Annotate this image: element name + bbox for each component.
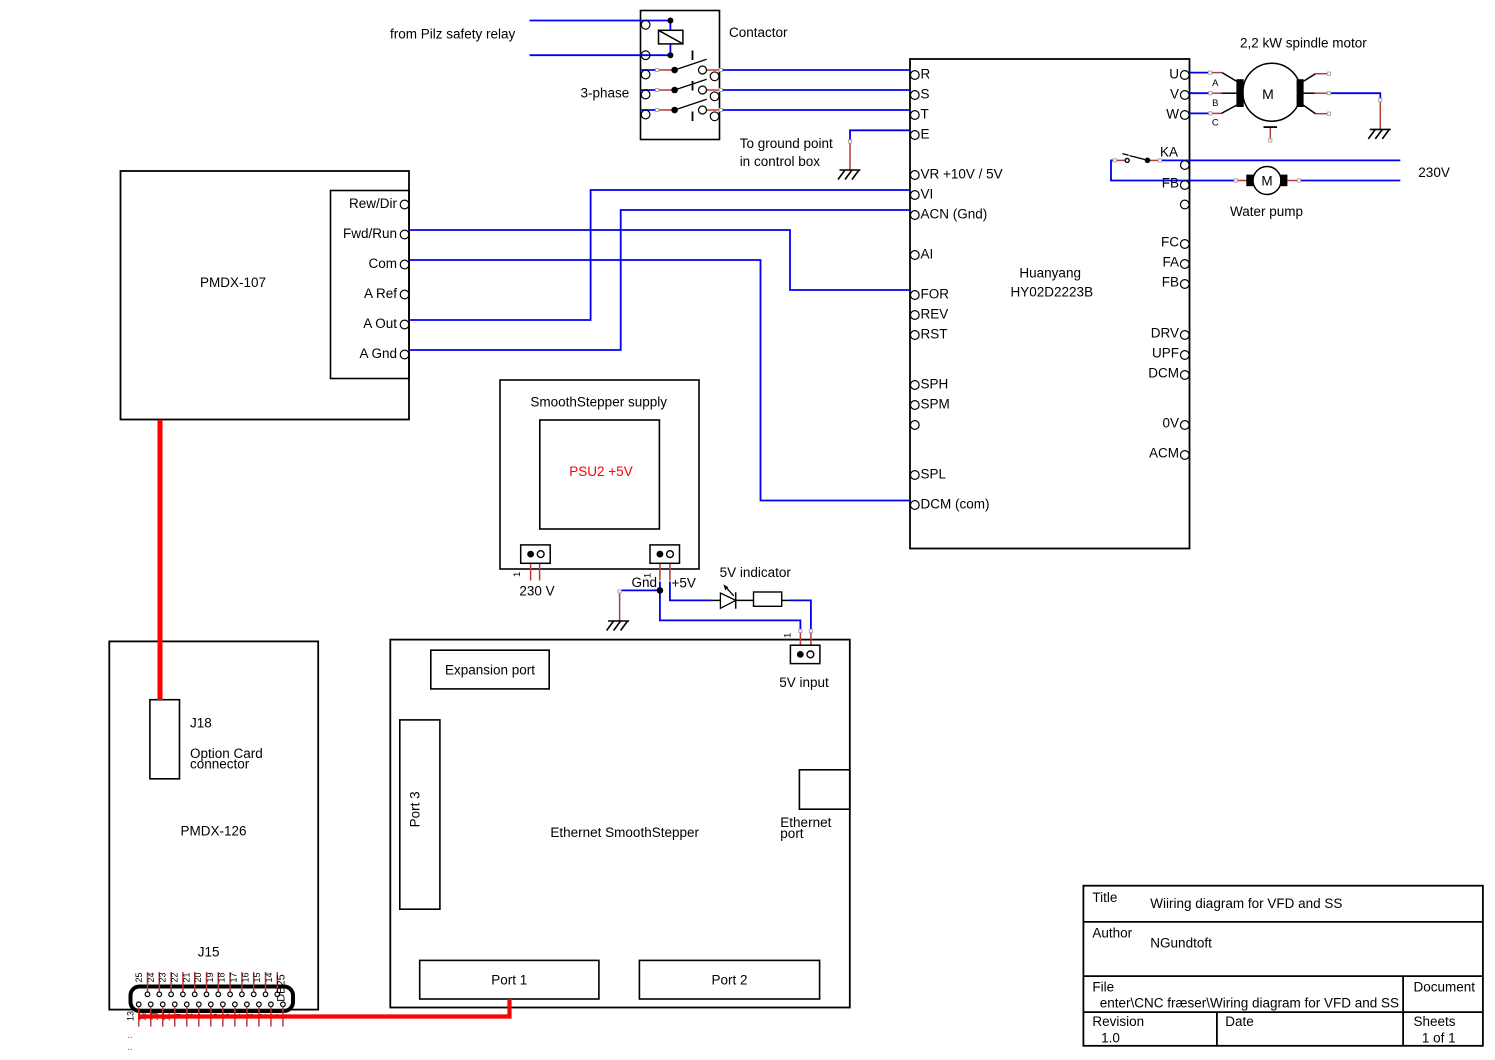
svg-text:Com: Com xyxy=(368,256,397,271)
svg-text:Title: Title xyxy=(1092,890,1117,905)
svg-text:20: 20 xyxy=(193,972,203,982)
svg-text:15: 15 xyxy=(252,972,262,982)
svg-text:230 V: 230 V xyxy=(519,584,554,599)
svg-text:Rew/Dir: Rew/Dir xyxy=(349,196,398,211)
svg-text:23: 23 xyxy=(158,972,168,982)
svg-text:16: 16 xyxy=(240,972,250,982)
svg-text:VR +10V / 5V: VR +10V / 5V xyxy=(921,166,1003,181)
svg-text:Port 1: Port 1 xyxy=(491,973,527,988)
svg-text:..: .. xyxy=(127,1042,133,1053)
svg-text:Author: Author xyxy=(1092,926,1132,941)
svg-text:PMDX-107: PMDX-107 xyxy=(200,275,266,290)
svg-text:Date: Date xyxy=(1225,1014,1254,1029)
svg-text:+5V: +5V xyxy=(672,575,696,590)
svg-text:DB25: DB25 xyxy=(275,974,287,1002)
svg-text:25: 25 xyxy=(134,972,144,982)
svg-text:M: M xyxy=(1261,173,1272,188)
svg-text:21: 21 xyxy=(181,972,191,982)
svg-text:SPM: SPM xyxy=(921,396,950,411)
svg-text:B: B xyxy=(1212,98,1218,109)
svg-text:FA: FA xyxy=(1162,254,1179,269)
svg-text:J15: J15 xyxy=(198,945,220,960)
svg-text:Expansion port: Expansion port xyxy=(445,662,535,677)
svg-text:M: M xyxy=(1262,86,1274,102)
svg-text:A Gnd: A Gnd xyxy=(359,346,397,361)
svg-text:DRV: DRV xyxy=(1151,325,1179,340)
svg-text:A: A xyxy=(1212,78,1219,89)
svg-text:To ground point: To ground point xyxy=(740,136,833,151)
svg-text:Wiiring diagram for VFD and SS: Wiiring diagram for VFD and SS xyxy=(1150,896,1342,911)
svg-text:Ethernet SmoothStepper: Ethernet SmoothStepper xyxy=(550,825,699,840)
svg-text:DCM: DCM xyxy=(1148,365,1179,380)
svg-text:14: 14 xyxy=(264,972,274,982)
svg-text:1 of 1: 1 of 1 xyxy=(1422,1030,1456,1045)
svg-text:VI: VI xyxy=(921,186,934,201)
svg-text:connector: connector xyxy=(190,756,250,771)
svg-text:U: U xyxy=(1169,66,1179,81)
svg-text:3-phase: 3-phase xyxy=(581,86,630,101)
svg-text:J18: J18 xyxy=(190,715,212,730)
svg-text:17: 17 xyxy=(229,972,239,982)
svg-text:ACM: ACM xyxy=(1149,445,1179,460)
svg-text:RST: RST xyxy=(921,326,948,341)
svg-text:Port 3: Port 3 xyxy=(407,791,422,827)
svg-text:Sheets: Sheets xyxy=(1414,1014,1456,1029)
svg-text:from Pilz safety relay: from Pilz safety relay xyxy=(390,26,516,41)
svg-text:FC: FC xyxy=(1161,234,1179,249)
svg-text:24: 24 xyxy=(146,972,156,982)
svg-text:V: V xyxy=(1170,86,1179,101)
svg-text:5V indicator: 5V indicator xyxy=(720,565,792,580)
svg-text:Document: Document xyxy=(1414,979,1476,994)
svg-text:SmoothStepper supply: SmoothStepper supply xyxy=(530,394,667,409)
svg-text:SPH: SPH xyxy=(921,376,949,391)
svg-text:FB: FB xyxy=(1162,274,1179,289)
svg-text:1: 1 xyxy=(782,633,793,638)
svg-text:R: R xyxy=(921,66,931,81)
svg-text:230V: 230V xyxy=(1418,165,1450,180)
svg-text:in control box: in control box xyxy=(740,154,821,169)
svg-text:S: S xyxy=(921,86,930,101)
svg-text:PMDX-126: PMDX-126 xyxy=(180,824,246,839)
svg-text:UPF: UPF xyxy=(1152,345,1179,360)
svg-text:0V: 0V xyxy=(1162,415,1179,430)
svg-text:1.0: 1.0 xyxy=(1101,1030,1120,1045)
svg-text:2,2 kW spindle motor: 2,2 kW spindle motor xyxy=(1240,36,1367,51)
svg-text:Fwd/Run: Fwd/Run xyxy=(343,226,397,241)
svg-text:NGundtoft: NGundtoft xyxy=(1150,935,1212,950)
svg-text:enter\CNC fræser\Wiring diagra: enter\CNC fræser\Wiring diagram for VFD … xyxy=(1100,996,1399,1011)
svg-text:W: W xyxy=(1166,106,1179,121)
svg-text:PSU2 +5V: PSU2 +5V xyxy=(569,464,632,479)
svg-text:13: 13 xyxy=(125,1011,135,1021)
svg-text:1: 1 xyxy=(642,573,653,578)
svg-text:Contactor: Contactor xyxy=(729,25,788,40)
svg-text:18: 18 xyxy=(217,972,227,982)
svg-text:Revision: Revision xyxy=(1092,1014,1144,1029)
svg-text:SPL: SPL xyxy=(921,466,947,481)
svg-text:KA: KA xyxy=(1160,145,1178,160)
svg-text:Huanyang: Huanyang xyxy=(1019,266,1081,281)
svg-text:AI: AI xyxy=(921,246,934,261)
svg-text:A Out: A Out xyxy=(363,316,397,331)
svg-text:FOR: FOR xyxy=(921,286,950,301)
svg-text:A Ref: A Ref xyxy=(364,286,397,301)
svg-text:19: 19 xyxy=(205,972,215,982)
svg-text:5V input: 5V input xyxy=(779,675,829,690)
svg-text:FB: FB xyxy=(1162,175,1179,190)
svg-text:..: .. xyxy=(127,1030,133,1041)
svg-text:DCM (com): DCM (com) xyxy=(921,496,990,511)
svg-text:Port 2: Port 2 xyxy=(711,973,747,988)
svg-text:E: E xyxy=(921,126,930,141)
svg-text:22: 22 xyxy=(170,972,180,982)
svg-text:T: T xyxy=(921,106,929,121)
svg-text:1: 1 xyxy=(512,572,523,577)
svg-text:port: port xyxy=(780,826,804,841)
svg-text:ACN (Gnd): ACN (Gnd) xyxy=(921,206,988,221)
svg-text:REV: REV xyxy=(921,306,949,321)
svg-text:File: File xyxy=(1092,979,1114,994)
svg-text:C: C xyxy=(1212,118,1219,129)
svg-text:Water pump: Water pump xyxy=(1230,204,1303,219)
svg-text:HY02D2223B: HY02D2223B xyxy=(1011,284,1094,299)
